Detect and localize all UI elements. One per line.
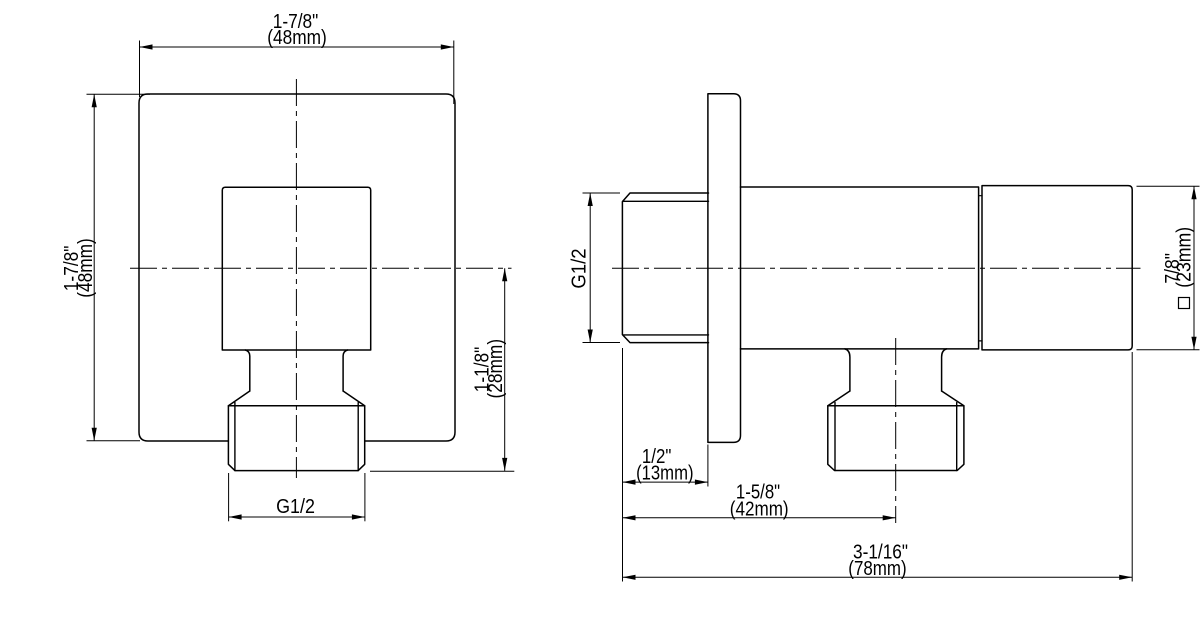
junction tick top bbox=[979, 195, 982, 197]
nut thread depth line left bbox=[834, 403, 836, 471]
G1/2 dim line bbox=[229, 516, 365, 518]
right dim 1-1/8" (28mm) line bbox=[504, 268, 506, 471]
shared left extension line bbox=[622, 348, 624, 582]
arrowhead top dim left bbox=[140, 44, 153, 49]
left dim line 1-7/8" (48mm) bbox=[93, 94, 95, 441]
arrowhead 1/2 dim left bbox=[623, 480, 636, 485]
right extension line bbox=[1131, 352, 1133, 582]
svg-text:G1/2: G1/2 bbox=[568, 248, 591, 288]
neck left edge bbox=[245, 350, 250, 391]
hex nut outline side bbox=[828, 406, 964, 471]
7/8" extension line top bbox=[1137, 185, 1200, 187]
nut shoulder slope right bbox=[343, 391, 365, 406]
centerlines left view bbox=[130, 79, 512, 478]
nut thread depth line right bbox=[956, 403, 958, 471]
arrowhead 1-5/8 dim left bbox=[623, 515, 636, 520]
arrowhead left dim down bbox=[92, 428, 97, 441]
neck right edge bbox=[343, 350, 348, 391]
7/8" extension line bottom bbox=[1137, 349, 1200, 351]
extension line left-top bbox=[87, 93, 151, 95]
horizontal centerline bbox=[130, 267, 512, 269]
svg-text:(42mm): (42mm) bbox=[730, 498, 789, 521]
square cap side bbox=[982, 186, 1132, 350]
G1/2 extension line right bbox=[364, 473, 366, 521]
dimensions left view bbox=[87, 41, 515, 522]
nut shoulder slope left bbox=[228, 391, 249, 406]
1-5/8" dim line bbox=[623, 517, 896, 519]
nut thread depth line right bbox=[357, 403, 359, 471]
dim texts left view bbox=[60, 11, 507, 519]
nut thread depth line left bbox=[234, 403, 236, 471]
arrowhead 3-1/16 dim right bbox=[1119, 575, 1132, 580]
7/8" dim line bbox=[1193, 186, 1195, 349]
dimensions right view bbox=[583, 186, 1200, 581]
nut neck right edge bbox=[942, 349, 947, 391]
top dim line 1-7/8" (48mm) bbox=[140, 46, 454, 48]
svg-text:(78mm): (78mm) bbox=[848, 557, 906, 580]
wall plate front (outer rounded square) bbox=[139, 94, 455, 441]
centerlines right view bbox=[612, 268, 1141, 523]
threaded inlet G1/2 outline bbox=[622, 193, 708, 343]
dim texts right view bbox=[568, 227, 1196, 580]
3-1/16" dim line bbox=[623, 576, 1133, 578]
hex nut outline bbox=[228, 406, 364, 471]
arrowhead 3-1/16 dim left bbox=[623, 575, 636, 580]
svg-text:(13mm): (13mm) bbox=[636, 461, 693, 484]
arrowhead left dim up bbox=[92, 94, 97, 107]
extension line top-right bbox=[453, 41, 455, 105]
nut vertical centerline bbox=[895, 338, 897, 523]
outlet block front (inner square) bbox=[222, 187, 370, 350]
arrowhead G1/2 dim right bbox=[352, 514, 365, 519]
arrowhead 1/2 dim right bbox=[695, 480, 708, 485]
plate face extension line bbox=[707, 445, 709, 487]
svg-text:(48mm): (48mm) bbox=[75, 238, 98, 298]
svg-text:G1/2: G1/2 bbox=[276, 496, 315, 518]
nut shoulder slope right bbox=[942, 391, 964, 406]
svg-text:(28mm): (28mm) bbox=[485, 339, 508, 399]
thread depth line bottom bbox=[624, 334, 709, 336]
extension line top-left bbox=[139, 41, 141, 98]
G1/2 extension line top bbox=[583, 192, 621, 194]
svg-text:(48mm): (48mm) bbox=[267, 27, 327, 50]
extension line left-bottom bbox=[87, 440, 141, 442]
1/2" dim line bbox=[623, 481, 708, 483]
G1/2 extension line bottom bbox=[583, 342, 621, 344]
valve body side bbox=[741, 187, 979, 349]
square symbol 23mm bbox=[1179, 298, 1190, 309]
arrowhead 1-5/8 dim right bbox=[883, 515, 896, 520]
arrowhead 1-1/8 dim up bbox=[502, 268, 507, 281]
arrowhead G1/2 dim up bbox=[588, 193, 593, 206]
right dim bottom extension bbox=[370, 470, 514, 472]
nut shoulder slope left bbox=[828, 391, 850, 406]
arrowhead 7/8 dim up bbox=[1191, 186, 1196, 199]
arrowhead 7/8 dim down bbox=[1191, 337, 1196, 350]
arrowhead G1/2 dim down bbox=[588, 330, 593, 343]
thread depth line top bbox=[624, 200, 709, 202]
nut neck left edge bbox=[845, 349, 850, 391]
vertical centerline bbox=[295, 79, 297, 478]
horizontal centerline bbox=[612, 267, 1141, 269]
G1/2 extension line left bbox=[228, 473, 230, 521]
wall plate side bbox=[708, 94, 741, 443]
arrowhead 1-1/8 dim down bbox=[502, 458, 507, 471]
junction tick bottom bbox=[979, 340, 982, 342]
arrowhead G1/2 dim left bbox=[229, 514, 242, 519]
G1/2 dim line bbox=[589, 193, 591, 343]
arrowhead top dim right bbox=[441, 44, 454, 49]
svg-text:(23mm): (23mm) bbox=[1173, 227, 1196, 288]
